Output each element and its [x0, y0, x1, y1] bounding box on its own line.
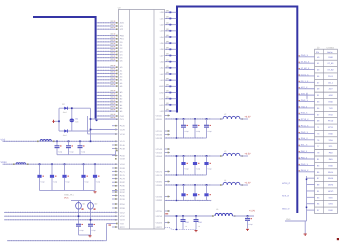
svg-text:GND: GND: [328, 164, 333, 167]
svg-text:VD200: VD200: [156, 199, 163, 202]
svg-text:V158: V158: [120, 158, 126, 161]
svg-text:GND_X: GND_X: [301, 54, 309, 57]
svg-text:AD7_X: AD7_X: [301, 86, 308, 89]
svg-text:SCK: SCK: [328, 196, 333, 199]
svg-text:VC181: VC181: [156, 180, 163, 183]
svg-text:SCL_X: SCL_X: [301, 144, 308, 147]
svg-text:V134: V134: [120, 133, 126, 136]
svg-text:LWR: LWR: [159, 85, 164, 88]
svg-text:VD227: VD227: [156, 226, 163, 229]
svg-text:SCK_O: SCK_O: [282, 195, 289, 198]
svg-text:Name: Name: [327, 51, 333, 54]
svg-text:PC11_X: PC11_X: [301, 124, 309, 127]
svg-text:P175: P175: [120, 174, 126, 177]
svg-text:D0_1_X: D0_1_X: [301, 80, 309, 83]
svg-text:CLK1_X: CLK1_X: [301, 73, 309, 76]
svg-text:V216: V216: [120, 215, 126, 218]
svg-text:P145: P145: [120, 144, 126, 147]
svg-text:bat: bat: [76, 120, 79, 123]
svg-text:P171: P171: [120, 170, 126, 173]
svg-text:P182: P182: [120, 181, 126, 184]
svg-text:TX0_X: TX0_X: [301, 105, 308, 108]
svg-text:PB14_X: PB14_X: [301, 169, 309, 172]
svg-text:GND: GND: [328, 132, 333, 135]
svg-text:PA9_X: PA9_X: [301, 156, 308, 159]
svg-text:GND_PLL: GND_PLL: [64, 194, 75, 197]
svg-text:GND: GND: [328, 101, 333, 104]
svg-text:IO_B2_X: IO_B2_X: [301, 67, 310, 70]
svg-text:V129: V129: [120, 128, 126, 131]
svg-text:GND_X: GND_X: [301, 131, 309, 134]
svg-text:+3.3V: +3.3V: [245, 116, 252, 119]
svg-text:P148: P148: [120, 147, 126, 150]
svg-text:GND: GND: [328, 209, 333, 212]
svg-text:VC211: VC211: [156, 210, 163, 213]
svg-text:LRS: LRS: [159, 104, 164, 107]
svg-text:GND: GND: [328, 56, 333, 59]
svg-text:P155: P155: [120, 154, 126, 157]
svg-text:GND_X: GND_X: [301, 163, 309, 166]
svg-text:TCK: TCK: [120, 222, 125, 225]
svg-text:SDA_X: SDA_X: [301, 137, 308, 140]
svg-text:VC131: VC131: [156, 130, 163, 133]
svg-text:P199: P199: [120, 198, 126, 201]
svg-text:VD156: VD156: [156, 155, 163, 158]
svg-text:VD175: VD175: [156, 174, 163, 177]
svg-text:PB15: PB15: [328, 177, 334, 180]
svg-text:NSS: NSS: [328, 203, 333, 206]
svg-text:+1.2V: +1.2V: [249, 209, 256, 212]
svg-text:VC196: VC196: [156, 195, 163, 198]
svg-text:P168: P168: [120, 167, 126, 170]
svg-text:V219: V219: [120, 219, 126, 222]
svg-text:MOSI: MOSI: [328, 184, 334, 187]
svg-text:V164: V164: [120, 163, 126, 166]
svg-text:MOSI_O: MOSI_O: [282, 182, 290, 185]
svg-text:D0_1: D0_1: [328, 81, 334, 84]
svg-text:VC149: VC149: [156, 148, 163, 151]
svg-text:PB14: PB14: [328, 171, 334, 174]
svg-text:+2.5V: +2.5V: [245, 153, 252, 156]
svg-text:VD216: VD216: [156, 215, 163, 218]
svg-text:IO_B1: IO_B1: [328, 62, 335, 65]
svg-text:P185: P185: [120, 185, 126, 188]
svg-text:VD119: VD119: [156, 118, 163, 121]
svg-text:GND: GND: [286, 218, 291, 221]
svg-text:IO_B1_X: IO_B1_X: [301, 61, 310, 64]
svg-text:+c: +c: [198, 225, 200, 228]
svg-text:P195: P195: [120, 194, 126, 197]
svg-text:V189: V189: [120, 189, 126, 192]
svg-text:VCC: VCC: [64, 196, 69, 199]
svg-text:MISO: MISO: [328, 190, 334, 193]
svg-text:VC222: VC222: [156, 221, 163, 224]
svg-text:PC10_X: PC10_X: [301, 118, 309, 121]
svg-text:+1.2V: +1.2V: [245, 182, 252, 185]
svg-text:VC152: VC152: [156, 151, 163, 154]
svg-text:CON64: CON64: [327, 46, 335, 49]
svg-text:LCS: LCS: [159, 98, 164, 101]
svg-text:GND_X: GND_X: [301, 99, 309, 102]
svg-text:+c: +c: [185, 225, 187, 228]
svg-text:P204: P204: [120, 203, 126, 206]
svg-text:LRD: LRD: [159, 91, 164, 94]
svg-text:PC11: PC11: [328, 126, 334, 129]
svg-text:P178: P178: [120, 178, 126, 181]
svg-text:+led: +led: [63, 111, 67, 114]
svg-text:V141: V141: [120, 140, 126, 143]
svg-text:SDA: SDA: [328, 139, 333, 142]
svg-text:P227: P227: [120, 226, 126, 229]
svg-text:RX0_X: RX0_X: [301, 112, 308, 115]
svg-text:P208: P208: [120, 207, 126, 210]
svg-text:+led: +led: [63, 134, 67, 137]
svg-text:VD138: VD138: [156, 137, 163, 140]
svg-text:GND_O: GND_O: [282, 208, 290, 211]
svg-text:ADC: ADC: [120, 22, 125, 25]
svg-text:VD185: VD185: [156, 184, 163, 187]
svg-text:VC134: VC134: [156, 133, 163, 136]
svg-text:IO_B2: IO_B2: [328, 69, 335, 72]
svg-text:PA8_X: PA8_X: [301, 150, 308, 153]
svg-text:PC10: PC10: [328, 120, 334, 123]
svg-text:P125: P125: [120, 125, 126, 128]
svg-text:V212: V212: [120, 211, 126, 214]
svg-text:VC171: VC171: [156, 170, 163, 173]
svg-text:CLK1: CLK1: [328, 75, 334, 78]
svg-text:VC115: VC115: [156, 114, 163, 117]
